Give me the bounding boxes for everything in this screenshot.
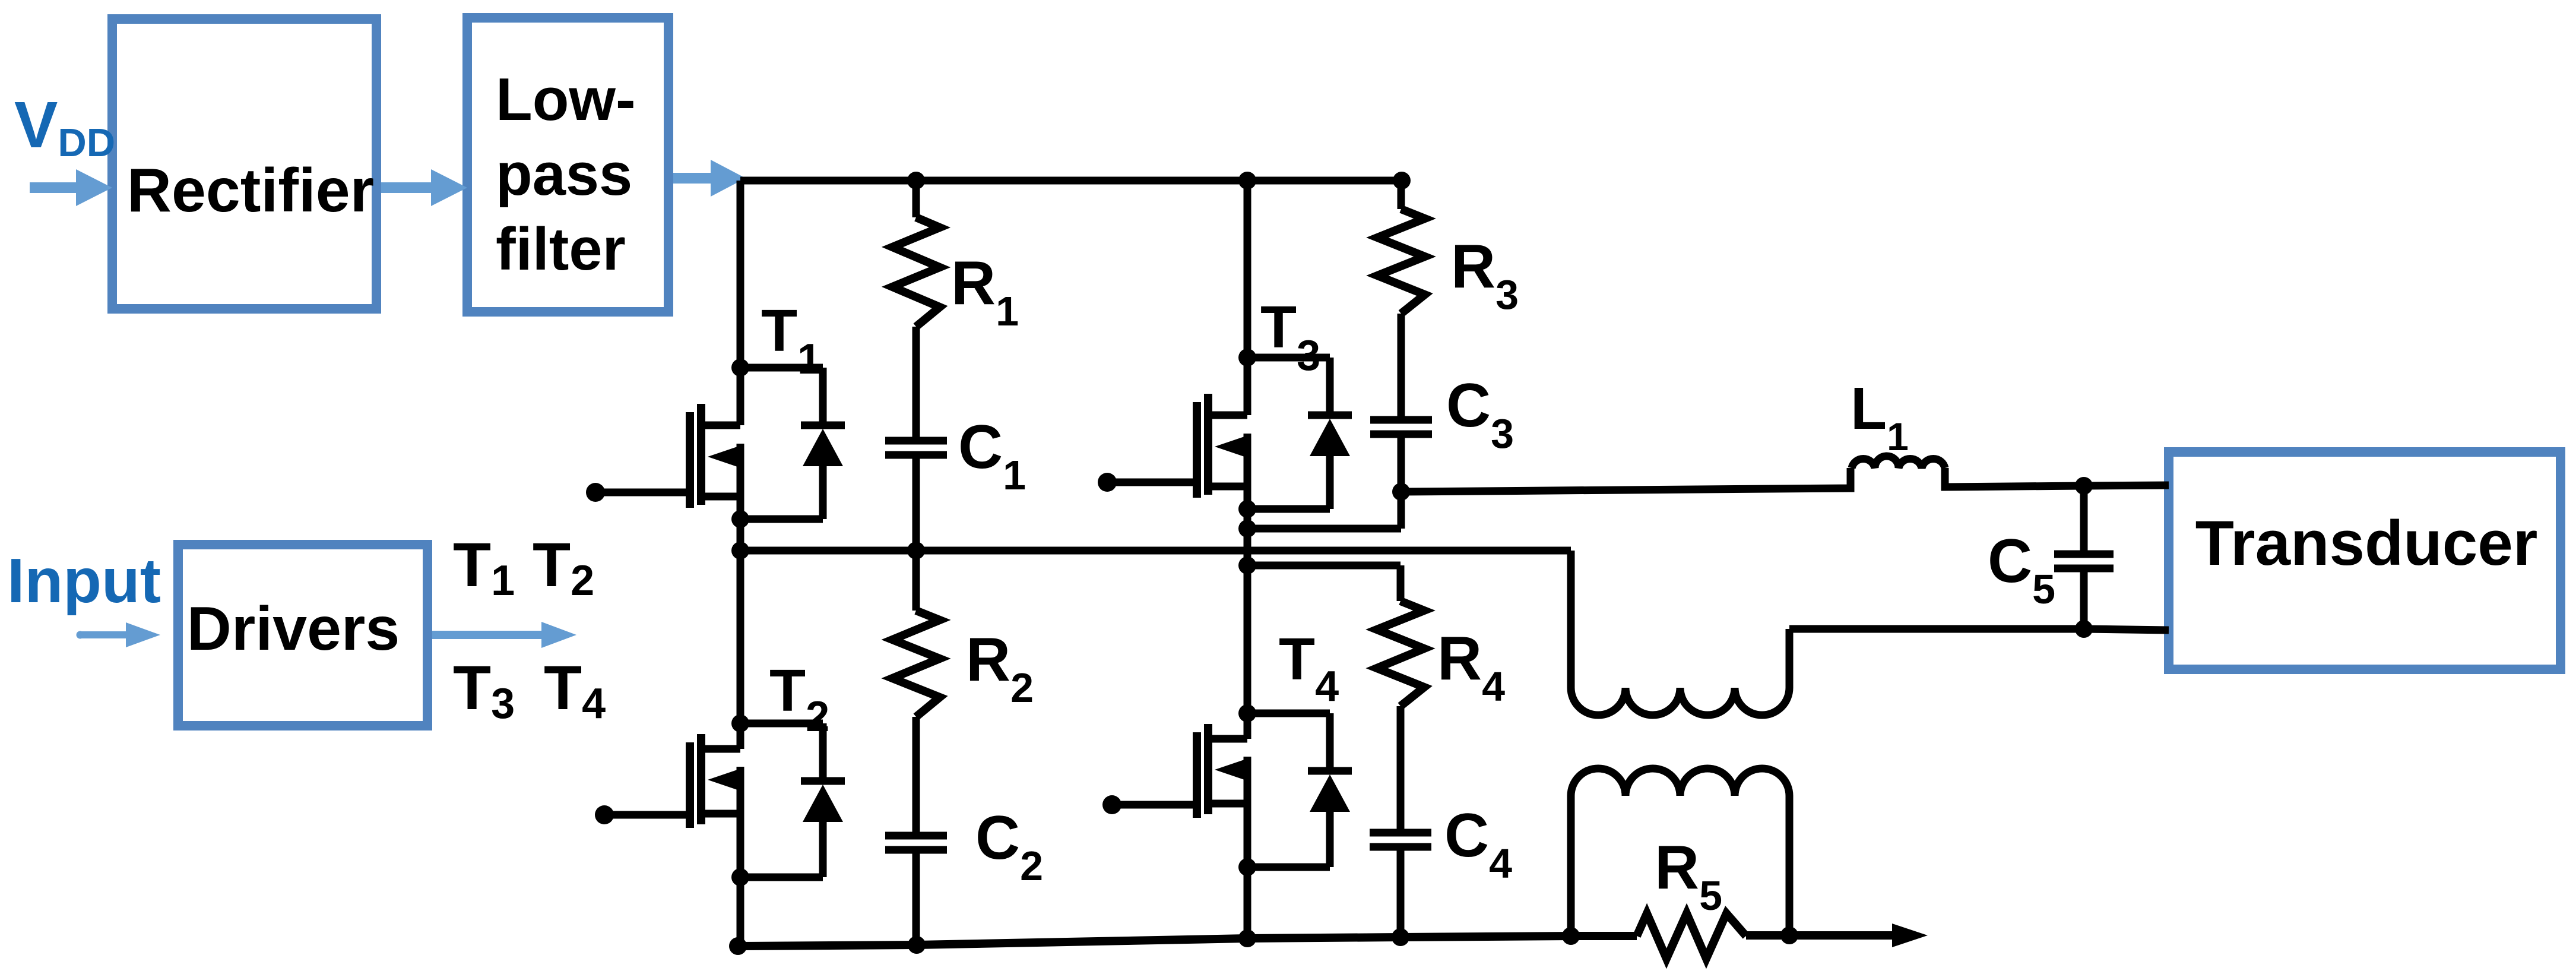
arrow rectifier to low-pass xyxy=(381,169,467,206)
capacitor C1 xyxy=(885,437,947,445)
node C4 bottom xyxy=(1392,928,1409,946)
node T2 drain xyxy=(731,714,749,732)
node top bus leg B xyxy=(1238,172,1256,189)
rectifier block xyxy=(112,19,376,309)
low-pass filter block xyxy=(467,18,668,312)
node C2 bottom xyxy=(908,936,926,954)
wire leg A lower xyxy=(737,767,744,946)
capacitor C3 xyxy=(1370,416,1432,424)
inductor L1 xyxy=(1852,456,1945,468)
svg-text:Drivers: Drivers xyxy=(187,594,400,663)
svg-text:Low-: Low- xyxy=(496,67,636,133)
body diode T3 xyxy=(1247,354,1330,362)
svg-text:filter: filter xyxy=(496,216,626,283)
wire bottom bus right xyxy=(1746,931,1894,940)
node top bus R3 xyxy=(1393,172,1411,189)
wire C5 bottom to transducer xyxy=(2084,629,2169,630)
wire leg A upper xyxy=(737,181,744,425)
wire top bus xyxy=(740,177,1402,185)
svg-text:Transducer: Transducer xyxy=(2195,507,2538,578)
transducer block xyxy=(2169,452,2561,669)
wire leg B middle xyxy=(1244,434,1251,739)
svg-text:pass: pass xyxy=(496,141,632,208)
wire leg B upper xyxy=(1244,181,1251,415)
wire bottom bus xyxy=(738,936,1637,946)
drivers block xyxy=(178,545,427,726)
svg-text:Input: Input xyxy=(7,546,161,616)
resistor R1 xyxy=(912,181,920,217)
transistor T3 xyxy=(1208,412,1247,419)
node T4 bottom xyxy=(1238,929,1256,947)
node bottom bus left xyxy=(729,937,747,955)
node T1 drain xyxy=(731,359,749,377)
node C5 bottom xyxy=(2075,620,2093,638)
node output A xyxy=(1392,483,1410,501)
wire mid bus A xyxy=(740,547,1571,555)
wire bridge output to L1 xyxy=(1401,468,1851,492)
svg-text:Rectifier: Rectifier xyxy=(127,156,374,225)
arrow low-pass to bridge xyxy=(673,160,746,197)
node C5 top xyxy=(2075,477,2093,495)
wire C3 bottom to leg B xyxy=(1247,525,1401,533)
node top bus R1 xyxy=(907,172,925,189)
transistor T1 xyxy=(701,422,740,429)
resistor R2 xyxy=(912,551,920,611)
body diode T4 xyxy=(1247,710,1330,717)
resistor R4 xyxy=(1377,601,1424,706)
capacitor C4 xyxy=(1370,829,1431,837)
arrow input to drivers xyxy=(77,631,84,639)
node mid bus A xyxy=(731,542,749,559)
node T4 drain xyxy=(1238,704,1256,722)
body diode T2 xyxy=(740,720,823,728)
wire leg A middle xyxy=(737,444,744,749)
wire mid bus to primary xyxy=(1567,551,1575,688)
arrow drivers to gates xyxy=(432,622,576,648)
wire L1 to transducer xyxy=(1945,468,2169,487)
arrow VDD to rectifier xyxy=(30,169,112,206)
body diode T1 xyxy=(740,364,823,372)
resistor R5 xyxy=(1637,913,1746,959)
node T3 source xyxy=(1238,500,1256,518)
node transformer right xyxy=(1780,926,1798,944)
resistor R3 xyxy=(1398,181,1405,209)
node T2 source xyxy=(731,868,749,886)
capacitor C5 xyxy=(2080,486,2088,552)
node C3 link xyxy=(1238,520,1256,537)
node T4 source xyxy=(1238,858,1256,876)
transformer secondary xyxy=(1567,796,1575,936)
node T1 source xyxy=(731,510,749,528)
transistor T4 xyxy=(1208,735,1247,743)
wire leg B to R4 xyxy=(1247,562,1401,570)
node R4 link xyxy=(1238,556,1256,574)
capacitor C2 xyxy=(885,832,947,840)
node T3 drain xyxy=(1238,349,1256,366)
output arrow xyxy=(1892,924,1928,947)
wire primary to output xyxy=(1786,629,1794,688)
transistor T2 xyxy=(701,745,740,753)
node C1 bottom xyxy=(907,542,925,559)
wire transformer to C5 bottom xyxy=(1789,625,2084,633)
wire leg B lower xyxy=(1244,757,1251,938)
node transformer left xyxy=(1562,927,1580,945)
transformer primary xyxy=(1571,688,1789,715)
